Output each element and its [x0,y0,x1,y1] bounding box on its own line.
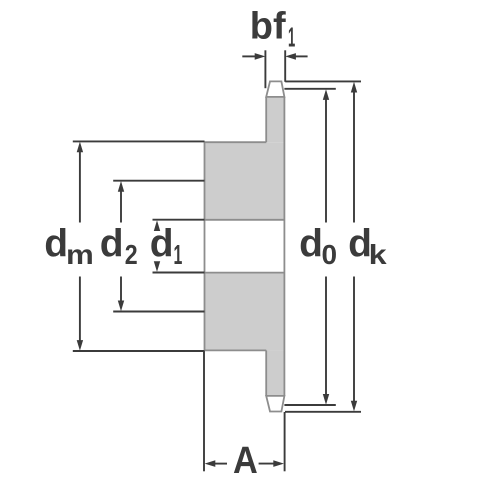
dimension d2 extension line bottom [113,311,204,313]
label dk [348,222,387,270]
dimension A arrow right [259,460,284,467]
tooth plate upper (gray fill) [266,97,284,142]
svg-text:d: d [100,222,124,265]
dimension d1 extension line bottom [153,272,205,274]
svg-text:2: 2 [125,239,138,270]
dimension d2 line [118,181,124,311]
svg-text:m: m [66,239,94,270]
label d0 [299,222,337,270]
dimension A extension line left [203,351,205,471]
hub body upper (gray fill) [205,142,285,220]
dimension d1 extension line top [153,219,205,221]
tooth plate lower (gray fill) [266,350,284,396]
svg-text:d: d [150,222,174,265]
svg-text:1: 1 [174,239,183,270]
svg-text:A: A [233,440,258,480]
svg-text:k: k [369,239,387,270]
label d1 [150,222,183,270]
dimension d1 arrows [154,220,160,272]
label bf1 [250,6,295,53]
dimension dm line [77,142,83,351]
dimension A arrow left [205,460,227,467]
dimension d2 extension line top [113,180,204,182]
svg-text:d: d [44,222,68,265]
dimension dm extension line top [73,140,205,142]
dimension dm extension line bottom [73,350,205,352]
label d2 [100,222,138,270]
hub outline [205,142,267,350]
dimension dk extension line top [285,80,361,82]
dimension dk line [351,82,357,412]
dimension bf1 arrow left [242,53,265,60]
svg-text:bf: bf [250,6,286,48]
dimension dk extension line bottom [285,411,361,413]
svg-text:d: d [299,222,323,265]
tooth tip bottom [266,396,284,412]
dimension bf1 extension line left [264,50,266,88]
tooth plate outline [266,97,284,396]
dimension bf1 arrow right [285,53,307,60]
svg-text:0: 0 [322,239,338,270]
hub body lower (gray fill) [205,273,285,351]
bore edges [205,220,285,273]
dimension d0 extension line bottom [284,404,335,406]
dimension A extension line right [284,412,286,471]
dimension d0 extension line top [284,88,335,90]
dimension bf1 extension line right [284,50,286,82]
dimension d0 line [323,89,329,405]
label dm [44,222,94,270]
svg-text:1: 1 [288,21,295,52]
tooth tip top [266,81,284,97]
